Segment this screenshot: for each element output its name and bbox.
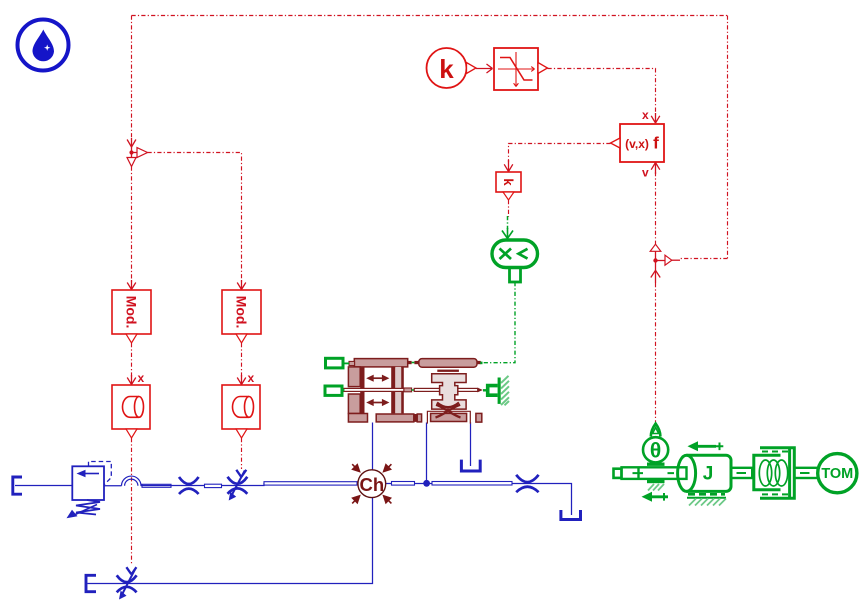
block Mod2	[222, 290, 261, 343]
variable throttle V2	[117, 567, 137, 599]
arrow plus above J	[688, 441, 724, 451]
wall bracket right	[483, 384, 498, 397]
shaft end square	[614, 469, 622, 478]
svg-text:x: x	[248, 371, 255, 385]
constant k source	[427, 48, 477, 88]
RED-SIGNALS	[112, 16, 728, 566]
chamber arrow lower	[366, 399, 389, 406]
svg-text:(v,x): (v,x)	[625, 137, 649, 151]
svg-text:k: k	[439, 54, 454, 84]
port stub P1	[349, 361, 355, 365]
wire saturation to fvx x-input	[548, 69, 656, 114]
wire T1 to relief valve	[15, 485, 73, 487]
shaft J to spring	[731, 468, 752, 478]
orifice O1	[179, 477, 199, 494]
wire conv1 down to bottom throttle	[131, 438, 133, 565]
wall ground bar	[498, 378, 501, 404]
actuator left wall lower	[348, 394, 360, 414]
arrow into Mod1	[127, 280, 136, 290]
pipe segment	[142, 484, 171, 487]
svg-text:Ch: Ch	[359, 474, 384, 495]
svg-text:Mod.: Mod.	[124, 296, 140, 329]
spool rod left	[343, 388, 404, 391]
wire RV1 to hump	[104, 485, 122, 487]
wire Ch to bottom line	[88, 498, 373, 584]
wire fvx output to k2	[509, 144, 611, 163]
wire k2 to sensor (green half)	[507, 216, 509, 229]
inertia J	[678, 455, 731, 491]
shaft left	[622, 467, 687, 479]
sleeve bar	[431, 413, 467, 421]
node junction A	[127, 138, 148, 167]
arrow into Mod2	[237, 280, 246, 290]
svg-text:f: f	[653, 134, 659, 153]
wire top feedback line	[132, 15, 728, 17]
chamber arrow upper	[366, 375, 389, 382]
J ground	[687, 494, 726, 498]
wire theta sensor to junction B	[655, 283, 657, 422]
wire Mod1 to conv1	[131, 343, 133, 377]
tank T3	[561, 510, 581, 520]
svg-text:v: v	[642, 166, 649, 180]
Ch chamber	[351, 463, 392, 504]
actuator top bar	[354, 359, 407, 367]
sensor displacement x<	[492, 240, 538, 282]
rod connectors	[404, 388, 412, 392]
block Mod1	[112, 290, 151, 343]
wire valve T-port down to tank T2b	[470, 422, 472, 466]
divider dark	[414, 414, 417, 422]
block converter2	[222, 385, 260, 438]
pipe segment	[432, 482, 512, 486]
svg-text:θ: θ	[650, 439, 661, 462]
variable throttle V1	[228, 470, 248, 501]
arrow into conv2	[237, 375, 246, 385]
body bottom left block	[348, 414, 367, 423]
wire k to saturation	[476, 64, 493, 73]
wall hatching	[501, 376, 509, 406]
pipe segment	[205, 484, 222, 487]
pilot cylinder	[419, 359, 477, 368]
flow cross X	[436, 403, 461, 418]
svg-text:x: x	[642, 108, 649, 122]
arrow plus below shaft	[642, 492, 669, 502]
pipe segment	[264, 482, 357, 485]
torque motor TOM	[818, 454, 857, 493]
VALVE	[343, 359, 483, 424]
wire valve B-port down to junction dot	[426, 423, 428, 484]
block gain k2	[496, 172, 521, 200]
block f(v,x)	[611, 124, 665, 162]
block converter1	[112, 385, 150, 438]
BLUE-HYDRAULIC	[13, 422, 581, 599]
arrow into conv1	[127, 375, 136, 385]
tank T4 bottom left	[86, 575, 96, 591]
wire hump to Ch (through O1,V1, step at 264)	[141, 484, 359, 486]
GREEN-MECH	[325, 216, 857, 506]
tank T2b	[461, 460, 480, 471]
tank T1	[13, 477, 22, 494]
spring of RV1	[76, 500, 100, 515]
wire sensor to spool rod	[482, 282, 515, 363]
wire hump over red line	[122, 476, 142, 486]
wire left column upper	[131, 16, 133, 139]
spool rod right	[414, 388, 478, 391]
node junction dot	[423, 480, 430, 487]
body bottom mid bar	[376, 414, 414, 422]
wire valve A-port down to Ch	[372, 423, 374, 471]
port green P2	[325, 386, 342, 395]
chamber lining dark	[360, 367, 364, 414]
rotary spring damper	[754, 448, 795, 499]
piston	[395, 367, 401, 414]
wire left column to Mod1	[131, 167, 133, 283]
wire junction to tank T3 through O2	[427, 484, 572, 516]
sleeve outline	[427, 411, 470, 423]
svg-text:k: k	[501, 178, 516, 186]
svg-text:x: x	[138, 371, 145, 385]
svg-text:Mod.: Mod.	[234, 296, 250, 329]
pipe segment	[392, 482, 415, 486]
wire conv2 down to throttle1	[241, 438, 243, 469]
node junction B	[650, 244, 680, 283]
theta support	[647, 463, 665, 466]
wire k2 to sensor (red half)	[508, 200, 510, 217]
wire feedback junctionB branch	[680, 258, 728, 260]
relief valve RV1	[67, 462, 112, 519]
svg-text:TOM: TOM	[821, 466, 853, 482]
theta sensor	[643, 424, 668, 463]
orifice O2	[516, 475, 538, 492]
small block right	[476, 413, 482, 422]
flapper bar dark	[437, 370, 459, 372]
block saturation	[494, 48, 548, 90]
wire Mod2 to conv2	[241, 343, 243, 377]
v input arrow	[651, 163, 660, 175]
actuator left wall upper	[348, 367, 360, 387]
spool I-beam	[432, 374, 466, 409]
shaft spring to TOM	[794, 468, 818, 478]
svg-text:J: J	[703, 463, 714, 484]
LOGO hydraulic drop	[18, 20, 69, 71]
wire Ch to junction dot	[386, 483, 427, 485]
wire branch to right column	[148, 153, 242, 283]
port green P1	[326, 358, 344, 368]
wire right feedback vertical	[727, 16, 729, 259]
